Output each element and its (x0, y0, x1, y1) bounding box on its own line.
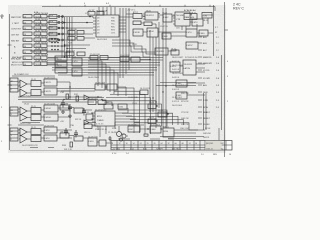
svg-text:+5V GND: +5V GND (112, 148, 121, 150)
wires opamp to U44 (57, 130, 72, 138)
svg-text:LS74: LS74 (45, 138, 51, 140)
stair wire s3 (88, 64, 106, 90)
wires opamp to IC (57, 82, 70, 91)
mid cluster box S3 (148, 119, 156, 124)
connector J3 (10, 107, 18, 116)
IC U47 (118, 104, 127, 109)
arrows r0 (198, 37, 202, 50)
svg-text:74LS04: 74LS04 (35, 58, 42, 60)
svg-text:15: 15 (147, 143, 149, 145)
stair nest line 7 (118, 110, 167, 126)
svg-text:22-11: 22-11 (31, 106, 36, 108)
svg-text:J105-11: J105-11 (206, 148, 213, 150)
svg-text:4: 4 (84, 3, 85, 5)
box M3 (120, 57, 129, 62)
cap C4 (64, 128, 68, 136)
svg-text:LS10: LS10 (89, 141, 95, 143)
svg-text:LS123: LS123 (45, 82, 52, 84)
svg-text:CLK88: CLK88 (203, 124, 210, 126)
svg-text:C7 .1: C7 .1 (85, 13, 90, 15)
IC U48 (170, 62, 180, 72)
svg-text:LS32: LS32 (119, 107, 123, 109)
svg-text:LS74: LS74 (193, 22, 199, 24)
svg-text:10-06 74S04: 10-06 74S04 (88, 77, 99, 79)
opamp small A7 (84, 95, 89, 100)
IC U50 (176, 80, 187, 87)
svg-text:52-08: 52-08 (149, 102, 154, 104)
junction m a (89, 16, 91, 18)
svg-text:18-13: 18-13 (203, 20, 208, 22)
bubble row1 (58, 16, 60, 18)
junction bc (147, 128, 148, 129)
cap C3 (82, 108, 86, 116)
IC U52 (88, 138, 97, 146)
title block NC fill (205, 141, 221, 150)
svg-text:RXC: RXC (111, 27, 116, 29)
gate U18 (34, 62, 47, 65)
svg-text:TXD: TXD (111, 18, 115, 20)
svg-text:INTA: INTA (203, 106, 208, 109)
wires bc (97, 122, 128, 143)
gate U4 (34, 21, 47, 24)
mid cluster box S2 (158, 112, 167, 117)
stair nest line 5 (102, 101, 156, 128)
opamp A2 (20, 89, 27, 97)
vbus c2 (152, 37, 154, 112)
small box row y52 B4 (77, 52, 85, 56)
left zone divider ticks (8, 45, 12, 125)
vertical net lines above U-J1 (99, 7, 115, 15)
svg-text:24-02 RS232 DTR: 24-02 RS232 DTR (22, 145, 38, 147)
svg-text:19-06: 19-06 (24, 104, 29, 106)
svg-text:CRT INT: CRT INT (11, 35, 20, 37)
junction mid a (149, 59, 150, 60)
wires M5 (57, 87, 126, 96)
svg-text:D3: D3 (97, 27, 99, 29)
IC U23 (145, 12, 158, 20)
gate U5 (23, 26, 32, 29)
gate U2 (34, 15, 47, 18)
gate U6 (34, 26, 47, 29)
U-J1 left pin stubs (93, 18, 96, 33)
svg-text:2-7: 2-7 (216, 43, 219, 45)
IC U44 (44, 127, 57, 133)
fan out wires from U46 (115, 108, 144, 125)
top border tick 1 (60, 5, 210, 7)
wire row2 (47, 22, 76, 24)
gate box row3 (49, 26, 57, 30)
svg-text:3: 3 (227, 76, 228, 78)
svg-text:LS244: LS244 (45, 108, 52, 110)
svg-text:00: 00 (175, 143, 177, 145)
svg-text:MHZ A2AT: MHZ A2AT (12, 56, 23, 59)
svg-text:12-03: 12-03 (132, 103, 137, 105)
svg-text:14-02 74LS00: 14-02 74LS00 (35, 31, 49, 33)
IC U32 (162, 33, 171, 39)
svg-text:2-7: 2-7 (216, 37, 219, 39)
hbus 5 (52, 67, 157, 69)
IC U28 (133, 29, 143, 36)
svg-text:R22 1K: R22 1K (75, 119, 82, 121)
svg-text:D1: D1 (97, 21, 99, 23)
vertical bus line v5 (71, 17, 73, 58)
box BL4 (74, 136, 83, 141)
IC U56 (163, 128, 174, 137)
svg-text:74LS04: 74LS04 (35, 52, 42, 54)
svg-text:3: 3 (149, 3, 150, 5)
svg-text:D2: D2 (97, 24, 99, 26)
svg-text:8T97: 8T97 (133, 12, 139, 14)
stair nest line 1 (118, 88, 134, 133)
wires bl2 (18, 123, 44, 126)
dark text block top right (184, 9, 196, 12)
junction mid d (162, 91, 163, 92)
stair nest line 10 (130, 120, 184, 125)
svg-text:U2-6: U2-6 (49, 15, 53, 17)
svg-text:DSR 232: DSR 232 (181, 118, 189, 120)
svg-text:13-08 LS08: 13-08 LS08 (95, 83, 105, 85)
svg-text:TIMER: TIMER (97, 120, 104, 122)
gate U8 (34, 32, 47, 35)
svg-text:U44 1488: U44 1488 (60, 104, 68, 106)
svg-text:6: 6 (19, 90, 20, 92)
junction dot h (66, 51, 68, 53)
vbus c3 (155, 37, 157, 108)
svg-text:U3-2: U3-2 (49, 27, 53, 29)
hbus 4 (47, 64, 160, 66)
svg-text:D4: D4 (97, 30, 99, 32)
cap bc1 (109, 136, 112, 141)
svg-text:4: 4 (19, 85, 20, 87)
svg-text:(NC)105: (NC)105 (206, 143, 213, 145)
wires J4 (18, 130, 44, 139)
svg-text:U45 1489: U45 1489 (60, 132, 68, 134)
IC U31 (199, 30, 208, 36)
svg-text:15-08 74LS04: 15-08 74LS04 (35, 37, 49, 39)
wires U50 (187, 83, 205, 95)
box BM2 (98, 100, 106, 105)
vbus c1 (149, 30, 151, 112)
hbus 6 (52, 69, 157, 71)
box BL3 (60, 133, 69, 138)
wire row6 (47, 45, 70, 47)
resistor R3 (70, 142, 73, 147)
stair wire s5 (88, 70, 114, 94)
gate U17 (23, 62, 32, 65)
svg-text:LS244: LS244 (45, 117, 52, 119)
svg-text:LS00: LS00 (200, 33, 206, 35)
junction mid e (165, 85, 166, 86)
wire row1 (47, 16, 76, 18)
svg-text:DTR 232: DTR 232 (181, 124, 189, 126)
svg-text:2: 2 (19, 81, 20, 83)
gate U7 (23, 32, 32, 35)
gate U11 (23, 44, 32, 47)
svg-text:74LS04: 74LS04 (35, 64, 42, 66)
svg-text:2-7: 2-7 (216, 50, 219, 52)
svg-text:04: 04 (24, 58, 26, 60)
svg-text:08: 08 (182, 143, 184, 145)
svg-text:LS244: LS244 (148, 31, 155, 33)
wire cluster B (75, 37, 95, 39)
vbus c6 (165, 8, 167, 128)
junction m b (86, 22, 88, 24)
svg-text:57-05 C20 .01: 57-05 C20 .01 (95, 129, 107, 131)
IC U24 (163, 14, 172, 22)
svg-text:16-08 74LS08: 16-08 74LS08 (35, 61, 49, 63)
svg-text:54-03: 54-03 (149, 117, 154, 119)
arrow r1 (198, 57, 202, 124)
hbus 8 (58, 74, 154, 76)
svg-text:7 14: 7 14 (130, 148, 134, 150)
svg-text:9-06 2-6: 9-06 2-6 (172, 69, 179, 71)
svg-text:15-04 74LS04: 15-04 74LS04 (35, 49, 49, 51)
vbus c5 (162, 8, 164, 128)
box M7 (140, 90, 148, 95)
IC U22 (133, 14, 142, 19)
svg-text:I/O RD: I/O RD (203, 70, 210, 72)
gate U16 (34, 56, 47, 59)
wires top verticals down (120, 8, 129, 78)
connector J4 (10, 128, 18, 141)
box M4 (131, 57, 140, 62)
pin stubs U25 (173, 14, 192, 24)
wire BL (69, 108, 92, 139)
svg-text:04: 04 (24, 34, 26, 36)
svg-text:REV C: REV C (233, 7, 244, 11)
svg-text:RXD 232: RXD 232 (181, 93, 189, 95)
gate U15 (23, 56, 32, 59)
U46 top boxes (104, 104, 113, 109)
scan blotch overlay (8, 5, 226, 153)
IC U45 (44, 135, 57, 141)
wire row8 (47, 57, 58, 59)
box BL1 (60, 105, 69, 110)
svg-text:18-07 LS367: 18-07 LS367 (172, 65, 183, 67)
small box T3 (133, 21, 141, 25)
svg-text:10-11 LS74: 10-11 LS74 (140, 88, 150, 90)
svg-text:RXD: RXD (111, 21, 116, 23)
box M1 (90, 56, 98, 60)
svg-text:ROM: ROM (203, 16, 208, 18)
svg-text:18-09 LS367: 18-09 LS367 (172, 73, 183, 75)
svg-text:74LS04: 74LS04 (35, 23, 42, 25)
box BM3 (84, 124, 92, 129)
svg-text:2: 2 (227, 101, 228, 103)
right border outer line (224, 2, 226, 157)
hbus 2 (48, 59, 163, 61)
gate U1 (23, 15, 32, 18)
svg-text:D7 D6 D5 D4: D7 D6 D5 D4 (185, 57, 198, 59)
svg-text:CTR: CTR (176, 19, 181, 21)
crystal Y1 (117, 132, 122, 137)
svg-text:16: 16 (126, 143, 128, 145)
label box T2 (97, 12, 104, 16)
title strip second rule (111, 147, 205, 149)
svg-text:29-05 8251A: 29-05 8251A (96, 10, 108, 13)
IC U29 (147, 28, 158, 37)
svg-text:LS74: LS74 (73, 61, 79, 63)
svg-text:20-11 BAUD CLK: 20-11 BAUD CLK (14, 73, 29, 76)
IC U40 (44, 79, 57, 86)
svg-text:04: 04 (24, 52, 26, 54)
branch dots (64, 44, 65, 45)
stair wire s1 (88, 58, 98, 86)
gate U3 (23, 21, 32, 24)
IC U49 (183, 60, 196, 75)
box left of U46 (86, 114, 93, 120)
svg-text:MEM RD: MEM RD (203, 57, 212, 59)
svg-text:DEN: DEN (203, 92, 208, 94)
small box cluster mid-top B2 (77, 37, 84, 41)
svg-text:2 0: 2 0 (201, 154, 204, 156)
wire A7 (89, 98, 104, 123)
IC U27b (202, 13, 212, 19)
svg-text:KBD INT: KBD INT (11, 41, 20, 43)
cap C1 (61, 100, 65, 108)
IC U25 (175, 12, 190, 26)
gate U10 (34, 38, 47, 41)
scan noise overlay (8, 5, 226, 153)
svg-text:74LS04: 74LS04 (35, 34, 42, 36)
svg-text:LS74: LS74 (45, 130, 51, 132)
junction mid c (155, 101, 156, 102)
branch wires mid (65, 45, 91, 49)
svg-text:14-06 74LS02: 14-06 74LS02 (35, 19, 49, 21)
opamp A3 (20, 107, 27, 115)
junction dot k (66, 56, 68, 58)
vertical pair right (204, 93, 207, 130)
IC U43 (44, 114, 58, 121)
IC U38 (72, 58, 82, 66)
junction dot b (64, 22, 66, 24)
vertical bus line v2 (64, 17, 66, 58)
stair nest line 3 (110, 94, 145, 134)
mid cluster dots (156, 105, 157, 106)
junction bm (97, 96, 98, 97)
wire lower left (69, 82, 71, 128)
IC U51 (176, 92, 187, 99)
svg-text:23-11: 23-11 (31, 127, 36, 129)
svg-text:LS32: LS32 (164, 17, 170, 19)
small box row y52 B3 (66, 52, 74, 56)
wire row9 (47, 63, 58, 65)
svg-text:26: 26 (154, 143, 156, 145)
svg-text:74: 74 (140, 143, 142, 145)
bl small marks (30, 147, 54, 149)
svg-text:8T-04 LS02: 8T-04 LS02 (68, 35, 78, 37)
IC U53 (99, 140, 106, 146)
svg-text:OSC: OSC (129, 129, 134, 131)
bubble row2 (58, 22, 60, 24)
junction dot d (69, 33, 71, 35)
crystal Y3 (119, 138, 122, 141)
gate U14 (34, 50, 47, 53)
svg-text:74: 74 (189, 143, 191, 145)
svg-text:9-12 2-3: 9-12 2-3 (172, 101, 179, 103)
svg-text:LS74: LS74 (73, 71, 79, 73)
svg-text:16-05: 16-05 (146, 11, 151, 13)
wires into strip right (160, 137, 204, 139)
svg-text:74LS04: 74LS04 (35, 28, 42, 30)
svg-text:19-13 LS02: 19-13 LS02 (172, 97, 182, 99)
svg-text:CONT INT: CONT INT (11, 29, 22, 31)
extra junctions bl (69, 96, 70, 97)
small box cluster mid-top B1 (68, 37, 75, 41)
stair nest line 9 (126, 116, 178, 125)
wire y76 (12, 75, 55, 77)
svg-text:TXC: TXC (111, 24, 115, 26)
svg-text:RESET: RESET (203, 118, 211, 120)
connector J2 (10, 78, 18, 92)
stair wire s6 (88, 73, 118, 96)
IC U36 (55, 62, 67, 67)
stair nest line 4 (106, 98, 151, 134)
resistor R1 (66, 94, 69, 99)
svg-text:14: 14 (229, 154, 231, 156)
svg-text:T-PWPT: T-PWPT (156, 148, 164, 150)
svg-text:DT/R: DT/R (203, 100, 208, 102)
svg-text:XTAL: XTAL (112, 127, 117, 130)
svg-text:12-11: 12-11 (132, 44, 137, 46)
svg-text:74LS374: 74LS374 (184, 64, 193, 66)
junction dot i (69, 51, 71, 53)
wires J3 (18, 109, 44, 118)
svg-text:1/2: 1/2 (221, 148, 224, 150)
title strip mid line (111, 144, 232, 146)
svg-text:DIG TBLS: DIG TBLS (172, 148, 181, 150)
svg-text:9.7: 9.7 (215, 27, 218, 29)
svg-text:6 1-4: 6 1-4 (112, 153, 116, 155)
junction dot f (61, 45, 63, 47)
label box T1 (88, 12, 95, 16)
faint bottom rule (10, 150, 111, 152)
svg-text:9-10 2-3: 9-10 2-3 (172, 89, 179, 91)
svg-text:13-11: 13-11 (171, 49, 176, 51)
stair nest line 6 (98, 104, 162, 126)
svg-text:MCLK OUT: MCLK OUT (11, 65, 22, 67)
box M6 (107, 84, 117, 90)
IC U42 (44, 105, 58, 112)
vbus c4 (158, 22, 160, 108)
box M5 (95, 84, 105, 90)
svg-text:LS74: LS74 (187, 32, 193, 34)
svg-text:74LS157: 74LS157 (146, 15, 155, 17)
svg-text:LS393: LS393 (56, 65, 63, 67)
svg-text:PCLK: PCLK (205, 128, 211, 130)
svg-text:L TEST: L TEST (12, 23, 20, 25)
wires mid right (143, 32, 213, 51)
svg-text:15-02 74LS08: 15-02 74LS08 (35, 55, 49, 57)
title strip outline (111, 141, 232, 151)
ground g1 (61, 110, 65, 113)
wires bottom cluster (140, 129, 205, 133)
svg-text:26-05 LS04: 26-05 LS04 (150, 125, 160, 127)
svg-text:25-03 OSC: 25-03 OSC (128, 125, 138, 127)
U-J1 right pin stubs (119, 17, 126, 32)
marks above strip (118, 138, 174, 140)
svg-text:32: 32 (168, 143, 170, 145)
junction dot g (64, 45, 66, 47)
svg-text:8284A: 8284A (163, 126, 169, 129)
svg-text:RTS 232: RTS 232 (181, 101, 188, 103)
svg-text:U2-8: U2-8 (49, 21, 53, 23)
long wires bl (18, 97, 102, 102)
cap C5 (74, 130, 78, 138)
IC U35 (55, 56, 67, 61)
svg-text:04: 04 (24, 46, 26, 48)
svg-text:04: 04 (24, 23, 26, 25)
